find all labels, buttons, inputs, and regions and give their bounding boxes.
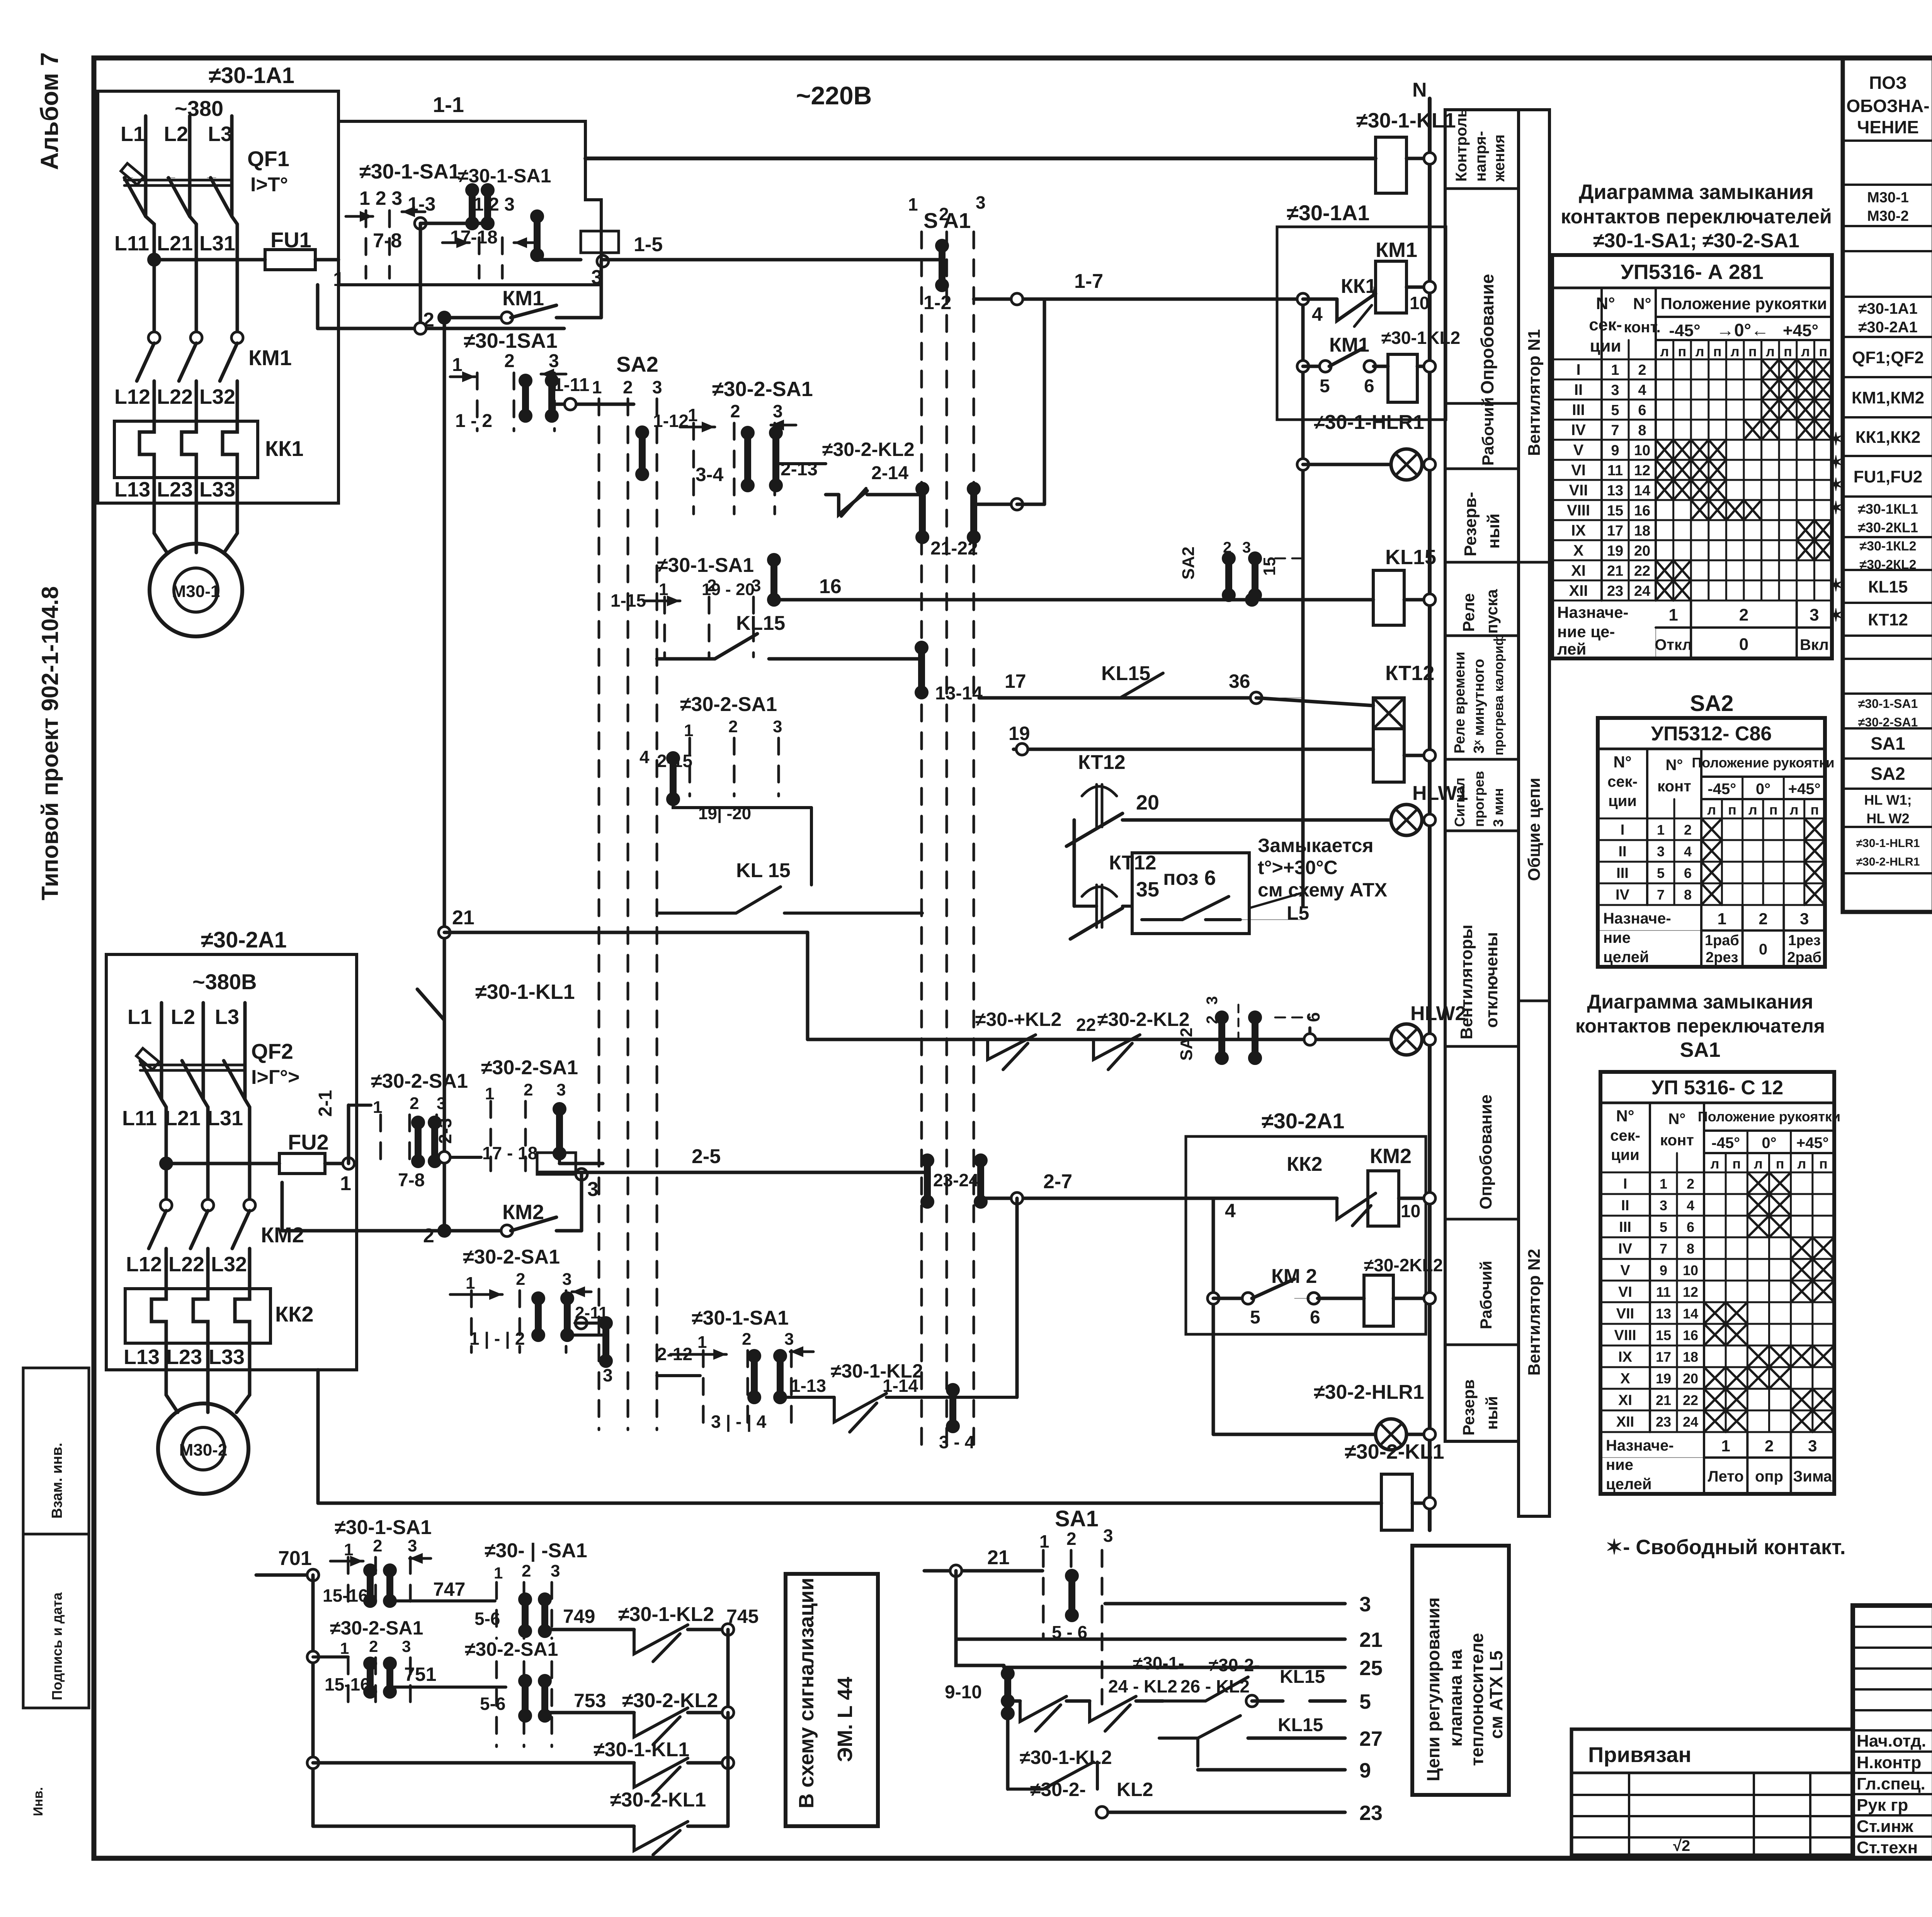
privyazan table columns [1628,1773,1630,1855]
svg-text:21: 21 [1607,563,1623,579]
wire out 25 [1004,1666,1345,1669]
switch 30-1-SA1 group A columns [365,211,367,278]
svg-text:Вентилятор N1: Вентилятор N1 [1525,329,1544,456]
svg-text:20: 20 [1634,543,1650,559]
coil KL15 [1373,570,1404,625]
wire 753 and contact 30-2-KL2 [545,1711,634,1715]
bar 9-10 [1004,1674,1011,1713]
function strip outline [1445,110,1549,1516]
svg-text:ный: ный [1484,514,1503,549]
svg-text:L13: L13 [114,478,150,501]
svg-text:2: 2 [728,717,738,736]
table SA2 UP5312-C86 crosses [1701,818,1722,840]
svg-text:3ˣ минутного: 3ˣ минутного [1471,659,1487,754]
svg-text:л: л [1754,1156,1763,1172]
svg-text:Н.контр: Н.контр [1857,1753,1921,1772]
svg-text:✶: ✶ [1828,429,1844,449]
table A281 cross marks [1762,359,1779,379]
svg-text:701: 701 [278,1547,312,1570]
switch SA2 dashed columns [598,399,600,1430]
svg-text:16: 16 [1683,1327,1698,1343]
svg-text:≠30-2-SA1: ≠30-2-SA1 [712,378,813,401]
svg-text:ние: ние [1603,929,1631,946]
svg-text:М30-2: М30-2 [1867,208,1909,225]
svg-text:3: 3 [551,1561,560,1580]
svg-text:≠30-2-KL2: ≠30-2-KL2 [822,439,915,460]
svg-text:3: 3 [1657,844,1665,859]
svg-text:SA2: SA2 [1179,546,1198,580]
svg-text:L22: L22 [157,385,193,408]
privyazan table outline [1571,1729,1853,1855]
vertical connecting KT12 contacts [1073,820,1076,906]
svg-text:17 - 18: 17 - 18 [482,1143,537,1163]
svg-text:QF1;QF2: QF1;QF2 [1852,348,1924,367]
svg-text:1-1: 1-1 [433,92,464,117]
branch down to 25 [956,1639,1004,1665]
svg-text:21: 21 [1359,1628,1383,1652]
wire 16 to KL15 coil [774,598,1373,602]
svg-text:HL W2: HL W2 [1866,811,1909,827]
svg-text:→0°←: →0°← [1716,320,1769,340]
svg-text:2-13: 2-13 [781,459,818,480]
svg-text:L23: L23 [166,1345,202,1369]
svg-text:см АТХ L5: см АТХ L5 [1486,1650,1506,1739]
svg-text:21-22: 21-22 [930,538,978,559]
svg-text:≠30- | -SA1: ≠30- | -SA1 [485,1539,587,1562]
svg-text:КК1,КК2: КК1,КК2 [1855,428,1921,447]
sig grp1 bars [367,1570,374,1601]
svg-text:18: 18 [1634,523,1650,539]
svg-text:5-6: 5-6 [474,1609,500,1629]
svg-text:Назначе-: Назначе- [1557,603,1629,621]
svg-text:√2: √2 [1673,1837,1690,1854]
svg-text:1-13: 1-13 [791,1376,826,1396]
svg-text:2: 2 [1687,1176,1694,1192]
phase ticks c2 [160,1003,163,1099]
svg-text:≠30-1-KL1: ≠30-1-KL1 [594,1738,689,1761]
svg-text:≠30-1-SA1: ≠30-1-SA1 [657,554,754,577]
parts table row lines [1843,139,1932,142]
wire HLW2 row with KL2 contacts [808,1038,1391,1041]
svg-text:конт: конт [1660,1132,1694,1149]
svg-text:Диаграмма замыкания: Диаграмма замыкания [1579,180,1814,204]
svg-text:Вентиляторы: Вентиляторы [1457,925,1476,1039]
SA2 contact bar after grpC [575,1317,587,1329]
svg-text:22: 22 [1683,1392,1698,1408]
table SA1 UP5316-C12 verticals [1649,1103,1651,1432]
svg-text:1: 1 [697,1333,707,1352]
svg-text:КМ1: КМ1 [1329,334,1369,356]
sig grp2 bars [522,1599,529,1631]
svg-text:2: 2 [623,377,633,397]
svg-text:3: 3 [976,192,986,213]
svg-text:✶- Свободный контакт.: ✶- Свободный контакт. [1605,1536,1846,1559]
SA1 bottom bar 5-6 [1068,1576,1075,1615]
svg-text:KL2: KL2 [1117,1779,1153,1800]
svg-text:Подпись и дата: Подпись и дата [49,1592,65,1700]
contact circles KM2 row [160,1199,172,1211]
svg-text:ции: ции [1590,337,1621,356]
svg-text:Гл.спец.: Гл.спец. [1857,1774,1925,1793]
wire 951 [390,1686,506,1689]
svg-text:XI: XI [1571,562,1586,579]
svg-text:II: II [1621,1197,1629,1214]
svg-text:п: п [1732,1156,1741,1172]
svg-text:3: 3 [587,1178,599,1201]
30-1-SA1 lower bars [751,1356,758,1397]
svg-text:1: 1 [452,355,463,375]
svg-text:1: 1 [1721,1437,1730,1455]
wire from block to node 2 [281,1182,284,1231]
svg-text:Реле времени: Реле времени [1452,651,1468,754]
wire 19 [1014,748,1373,751]
svg-text:XII: XII [1616,1414,1634,1430]
svg-text:1 2 3: 1 2 3 [359,187,402,209]
30-2-SA1 grpA columns [379,1115,382,1159]
svg-text:QF1: QF1 [247,146,289,171]
wire y850 to SA2 columns [318,327,564,330]
svg-text:L31: L31 [207,1107,243,1130]
svg-text:L31: L31 [199,232,235,255]
bar 1-12 on SA2 col [639,432,646,474]
svg-text:4: 4 [639,747,650,767]
svg-text:Ст.инж: Ст.инж [1857,1817,1913,1836]
svg-text:SA1: SA1 [1680,1038,1720,1061]
svg-text:6: 6 [1638,402,1646,418]
wire out 9 [1198,1768,1345,1772]
svg-text:23: 23 [1656,1414,1671,1430]
svg-text:3: 3 [549,351,559,371]
svg-text:I>Т°: I>Т° [250,173,288,196]
svg-text:Положение рукоятки: Положение рукоятки [1698,1109,1840,1124]
sig grp3 columns [347,1658,350,1712]
switch SA1 middle dashed columns [920,232,923,1445]
svg-text:~380: ~380 [175,96,223,121]
svg-text:ние: ние [1606,1456,1633,1473]
svg-text:-45°: -45° [1669,321,1700,340]
svg-text:✶: ✶ [1828,575,1844,595]
svg-text:2: 2 [730,401,740,421]
wire 701 [256,1573,313,1577]
svg-text:контактов переключателей: контактов переключателей [1561,206,1832,228]
svg-text:13: 13 [1656,1306,1671,1322]
svg-text:KL15: KL15 [1278,1715,1323,1735]
svg-text:7-8: 7-8 [373,230,402,252]
node 2 circuit2 [438,1224,451,1237]
SA1 bottom columns [1042,1550,1045,1638]
wire to grpB [444,1156,481,1159]
svg-text:2-14: 2-14 [871,463,908,483]
svg-text:л: л [1660,344,1669,359]
svg-text:2: 2 [410,1094,419,1113]
svg-text:КК1: КК1 [265,436,304,461]
svg-text:прогрева калориф: прогрева калориф [1492,634,1506,755]
svg-text:Замыкается: Замыкается [1258,835,1374,856]
svg-text:21: 21 [1656,1392,1671,1408]
wire poz6 to rail vertical [1240,919,1303,920]
svg-text:л: л [1801,344,1810,359]
parts table outer and columns [1843,58,1932,912]
svg-text:КТ12: КТ12 [1868,611,1908,629]
title block left grid rows [1853,1626,1932,1628]
svg-text:≠30-2-KL1: ≠30-2-KL1 [610,1789,706,1811]
svg-text:КМ2: КМ2 [1370,1145,1412,1168]
svg-text:L21: L21 [165,1107,201,1130]
svg-text:8: 8 [1684,887,1692,903]
svg-text:II: II [1618,844,1626,860]
signal box to scheme [786,1574,878,1826]
svg-text:22: 22 [1634,563,1650,579]
svg-text:19: 19 [1009,723,1030,744]
svg-text:прогрев: прогрев [1471,771,1487,827]
svg-text:≠30-+KL2: ≠30-+KL2 [975,1009,1061,1030]
svg-text:21: 21 [452,907,474,929]
svg-text:2: 2 [1684,822,1692,838]
svg-text:Контроль: Контроль [1453,108,1470,182]
svg-text:X: X [1620,1371,1630,1387]
svg-text:3: 3 [562,1270,571,1289]
table SA1 UP5316-C12 rows [1600,1172,1834,1174]
svg-text:Реле: Реле [1459,593,1478,632]
svg-text:25: 25 [1359,1657,1383,1680]
svg-text:KL15: KL15 [1101,662,1150,685]
svg-text:Вентилятор N2: Вентилятор N2 [1525,1249,1544,1376]
svg-text:~380В: ~380В [192,970,257,994]
svg-text:3: 3 [408,1536,417,1555]
thermal relay KK1 box [114,421,258,478]
svg-text:≠30-1-SA1: ≠30-1-SA1 [458,165,551,187]
margin stamp boxes bottom left [23,1368,89,1534]
svg-text:12: 12 [1683,1284,1698,1300]
svg-text:3: 3 [773,717,782,736]
group 1-15 bars [770,560,777,600]
svg-text:VI: VI [1618,1284,1632,1300]
svg-text:сек-: сек- [1610,1127,1640,1144]
svg-text:≠30-2-KL2: ≠30-2-KL2 [622,1689,718,1712]
node 3 box circuit2 [558,1153,561,1163]
svg-text:≠30-1А1: ≠30-1А1 [1858,300,1917,317]
table A281 naznachenie rows [1656,626,1832,629]
svg-text:2: 2 [524,1080,533,1099]
svg-text:~220В: ~220В [796,81,872,110]
svg-text:15-16: 15-16 [325,1674,370,1694]
svg-text:XI: XI [1618,1392,1632,1408]
wire out 21 [956,1638,1345,1641]
wire 35 [1122,905,1132,908]
relay block 30-2A1 outline [1186,1136,1426,1334]
svg-text:+45°: +45° [1788,781,1821,798]
svg-text:≠30-1-HLR1: ≠30-1-HLR1 [1314,411,1424,434]
svg-text:7: 7 [1611,422,1619,439]
svg-text:напря-: напря- [1472,131,1489,182]
svg-text:3 мин: 3 мин [1490,788,1506,827]
svg-text:17: 17 [1607,523,1623,539]
switch 30-1-SA1 group B contact bar 17-18 [534,216,541,255]
svg-text:М30-1: М30-1 [1867,190,1909,206]
block 1-1 outline [338,121,601,285]
svg-text:1: 1 [340,1639,349,1657]
svg-text:5: 5 [1660,1219,1667,1235]
wires to motor M30-1 [154,478,167,553]
svg-text:1-3: 1-3 [408,193,435,215]
strip section rabochiy 1 [1445,468,1519,470]
svg-text:≠30-2А1: ≠30-2А1 [1262,1109,1344,1133]
svg-text:L22: L22 [168,1253,204,1276]
svg-text:2рез: 2рез [1706,949,1738,966]
svg-text:8: 8 [1638,422,1646,439]
group 19-20 lower bars [670,758,677,799]
svg-text:L2: L2 [164,122,188,146]
svg-text:747: 747 [433,1579,465,1600]
svg-text:5: 5 [1250,1307,1260,1328]
svg-text:п: п [1819,344,1827,359]
strip section ventilyatory otklyucheny [1445,1045,1519,1048]
svg-text:КТ12: КТ12 [1385,662,1434,685]
svg-text:L23: L23 [157,478,193,501]
svg-text:L3: L3 [215,1005,239,1029]
svg-text:Рабочий: Рабочий [1477,1261,1495,1329]
wire KK1 to KM1 coil [1374,287,1376,294]
svg-text:сек-: сек- [1607,773,1638,790]
svg-text:t°>+30°С: t°>+30°С [1258,857,1338,878]
svg-text:XII: XII [1569,582,1588,599]
svg-text:L2: L2 [171,1005,195,1029]
svg-text:L3: L3 [208,122,232,146]
table SA2 UP5312-C86 naznachenie [1598,930,1825,931]
svg-text:л: л [1731,344,1740,359]
svg-text:-45°: -45° [1711,1135,1740,1152]
svg-text:ции: ции [1608,793,1637,810]
wire 2-7 [981,1197,1186,1200]
relay coil 30-1-KL1 [1376,137,1406,193]
svg-text:13-14: 13-14 [935,683,983,704]
svg-text:L11: L11 [114,232,149,255]
svg-text:Типовой проект 902-1-104.8: Типовой проект 902-1-104.8 [37,586,63,900]
svg-text:KL 15: KL 15 [736,859,791,882]
svg-text:6: 6 [1687,1219,1694,1235]
svg-text:УП5316- А 281: УП5316- А 281 [1621,260,1764,284]
svg-text:ЧЕНИЕ: ЧЕНИЕ [1857,117,1919,137]
svg-text:1 - 2: 1 - 2 [455,411,492,431]
svg-text:2: 2 [369,1637,378,1655]
svg-text:6: 6 [1364,376,1374,396]
group 1-15 columns [663,597,666,657]
svg-text:15: 15 [1607,503,1623,519]
svg-text:14: 14 [1683,1306,1698,1322]
strip section signal [1445,830,1519,832]
svg-text:Положение рукоятки: Положение рукоятки [1661,294,1827,313]
svg-text:Назначе-: Назначе- [1606,1437,1674,1454]
svg-text:3: 3 [1103,1526,1113,1546]
svg-text:л: л [1748,802,1757,818]
svg-text:сек-: сек- [1589,315,1622,334]
svg-text:3: 3 [1204,996,1221,1005]
svg-text:1: 1 [1718,910,1726,928]
svg-text:2: 2 [1638,362,1646,378]
node 2 circuit1 [438,311,451,324]
switch 30-1-SA1 group B columns [478,238,481,278]
svg-text:см схему АТХ: см схему АТХ [1258,879,1387,901]
svg-text:Цепи регулирования: Цепи регулирования [1423,1597,1443,1781]
30-1-SA1 lower columns [702,1351,705,1430]
svg-text:5-6: 5-6 [480,1694,505,1714]
svg-text:1рез: 1рез [1788,932,1820,949]
svg-text:IV: IV [1616,887,1630,903]
svg-text:Опробование: Опробование [1477,274,1497,394]
svg-text:SA2: SA2 [1871,764,1905,784]
svg-text:Вкл: Вкл [1800,636,1829,653]
svg-text:л: л [1711,1156,1719,1172]
wire 21 to HLW2 branch [439,927,450,938]
svg-text:≠30-1-KL1: ≠30-1-KL1 [475,980,575,1004]
svg-text:2-7: 2-7 [1043,1170,1072,1193]
poz6 box [1132,853,1249,934]
svg-text:КМ1: КМ1 [502,287,544,310]
svg-text:4: 4 [1225,1200,1236,1221]
svg-text:≠30-2-: ≠30-2- [1209,1655,1260,1675]
wire 13-14 row [769,657,919,661]
svg-text:L21: L21 [157,232,193,255]
title block outline [1853,1606,1932,1858]
svg-text:N°: N° [1633,294,1651,313]
svg-text:4: 4 [1312,303,1323,325]
wire node1 up to SA-group and 2-1 [347,1105,350,1163]
svg-text:п: п [1784,344,1792,359]
svg-text:KL15: KL15 [736,612,785,634]
thermal relay KK2 box [125,1289,270,1343]
coil KT12 with cross box [1373,698,1404,729]
svg-text:24: 24 [1683,1414,1698,1430]
vertical from block bottom to wire 850 [316,285,320,328]
svg-text:Резерв: Резерв [1459,1379,1478,1436]
svg-text:0: 0 [1739,635,1748,654]
contact circles KM1 row1 [148,332,160,344]
svg-text:≠30-1SA1: ≠30-1SA1 [464,329,558,352]
sig grp4 columns [495,1662,498,1747]
svg-text:≠30-1-SA1: ≠30-1-SA1 [692,1307,789,1329]
svg-text:35: 35 [1136,878,1159,901]
vertical from node2 down [443,318,446,1231]
bars 23-24 [924,1160,931,1202]
wire out 3 [1105,1602,1345,1606]
svg-text:1 | - | 2: 1 | - | 2 [469,1328,525,1349]
svg-text:L12: L12 [126,1253,162,1276]
long bottom wire [318,1502,1381,1505]
regulation box [1412,1546,1509,1795]
svg-text:клапана на: клапана на [1446,1649,1466,1747]
svg-text:23: 23 [1607,583,1623,599]
svg-text:27: 27 [1359,1727,1383,1750]
svg-text:26 - KL2: 26 - KL2 [1180,1676,1250,1696]
wire 749 and contact 30-1-KL2 [545,1628,634,1631]
svg-text:≠30-1-KL2: ≠30-1-KL2 [618,1603,714,1626]
wires to motor M30-2 [166,1343,178,1412]
relay block 30-1A1 outline [1277,227,1446,420]
wire 2-5 [539,1171,925,1174]
svg-text:≠30-2КL2: ≠30-2КL2 [1859,558,1916,572]
svg-text:3: 3 [1359,1593,1371,1616]
table A281 row lines [1552,359,1832,361]
svg-text:Лето: Лето [1708,1468,1744,1485]
svg-text:N°: N° [1613,753,1631,771]
strip section rele puska [1445,634,1519,637]
svg-text:КК2: КК2 [1287,1153,1322,1175]
svg-text:2: 2 [1765,1437,1774,1455]
strip section rele vremeni [1445,758,1519,761]
svg-text:FU1,FU2: FU1,FU2 [1854,468,1922,486]
svg-text:≠30-2-KL2: ≠30-2-KL2 [1097,1009,1190,1030]
svg-text:КМ1,КМ2: КМ1,КМ2 [1852,388,1924,407]
